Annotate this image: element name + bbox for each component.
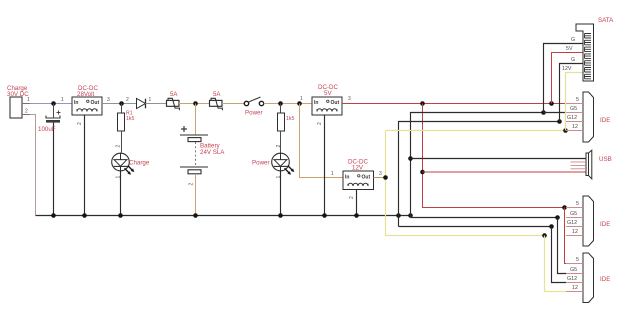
capacitor C1 100uF xyxy=(38,104,61,216)
svg-text:G12: G12 xyxy=(567,276,577,282)
ide connector J4 xyxy=(566,196,610,246)
svg-text:12: 12 xyxy=(572,285,578,291)
svg-text:IDE: IDE xyxy=(600,117,610,124)
wire U1 out to diode xyxy=(102,103,137,105)
usb connector J3 xyxy=(571,150,612,179)
wire gnd ide2 G12 feed xyxy=(399,226,552,228)
wire charger plus net xyxy=(30,103,72,105)
wire 5V rail horizontal xyxy=(342,103,566,105)
svg-text:1: 1 xyxy=(276,176,282,179)
wire 12V rail xyxy=(386,131,545,236)
wire U2 pin2 to ground xyxy=(324,115,326,216)
node junction gnd LED charge xyxy=(118,213,123,218)
wire 5V vertical drop xyxy=(423,104,565,208)
svg-text:5: 5 xyxy=(576,201,579,207)
svg-text:3: 3 xyxy=(348,96,351,102)
wire gnd ide3 G5 drop xyxy=(558,218,567,274)
svg-text:2: 2 xyxy=(77,122,83,125)
svg-text:1: 1 xyxy=(149,97,152,103)
wire LED charge cathode to ground xyxy=(120,171,122,216)
svg-text:Out: Out xyxy=(91,100,100,106)
wire 12V converter feed xyxy=(300,104,344,178)
node junction 5V usb tap xyxy=(420,170,425,175)
svg-text:1k5: 1k5 xyxy=(286,116,294,122)
ide connector J2 xyxy=(566,92,610,142)
node junction gnd ide2 G5 xyxy=(555,215,560,220)
dc-dc converter U3 12V xyxy=(331,159,382,200)
node junction gnd U1 xyxy=(82,213,87,218)
svg-text:12: 12 xyxy=(572,229,578,235)
svg-text:IDE: IDE xyxy=(600,276,610,283)
svg-text:In: In xyxy=(314,100,318,106)
wire gnd riser A vertical xyxy=(399,122,560,227)
wire U3 pin2 to ground xyxy=(356,190,358,216)
wire 5V sata riser xyxy=(552,53,584,104)
svg-text:12: 12 xyxy=(572,124,578,130)
wire U3 output stub xyxy=(374,177,386,179)
svg-text:1: 1 xyxy=(61,97,64,103)
svg-text:5A: 5A xyxy=(170,92,177,98)
svg-text:30V DC: 30V DC xyxy=(7,91,29,98)
svg-text:G5: G5 xyxy=(570,211,577,217)
wire gnd ide2 G5 feed xyxy=(411,217,558,219)
wire ground bus xyxy=(36,215,411,217)
svg-text:G12: G12 xyxy=(567,220,577,226)
wire gnd ide3 G12 drop xyxy=(552,227,567,283)
wire U1 pin2 to ground xyxy=(84,115,86,216)
wire gnd sata riser 2 xyxy=(560,64,584,122)
wire 12V sata riser xyxy=(566,73,584,131)
svg-text:Out: Out xyxy=(362,175,371,181)
node junction gnd riser B xyxy=(408,213,413,218)
node junction 5V ide2 xyxy=(562,205,567,210)
node junction gnd riser A xyxy=(396,213,401,218)
node junction 12V ide2 xyxy=(542,233,547,238)
resistor R2 1k5 xyxy=(278,104,295,153)
svg-text:3: 3 xyxy=(107,97,110,103)
wire gnd ide1 G5 stub xyxy=(544,112,567,114)
svg-text:Charge: Charge xyxy=(129,160,150,167)
node junction gnd usb tap xyxy=(408,156,413,161)
node junction gnd U2 xyxy=(322,213,327,218)
node junction 12V source xyxy=(383,175,388,180)
svg-text:SATA: SATA xyxy=(598,17,614,24)
svg-text:5A: 5A xyxy=(213,92,220,98)
svg-text:G5: G5 xyxy=(570,267,577,273)
svg-text:In: In xyxy=(74,100,78,106)
connector X1 Charge 30VDC xyxy=(7,85,30,118)
wire charger minus net xyxy=(30,115,36,216)
svg-text:2: 2 xyxy=(189,183,195,186)
wire LED power cathode to ground xyxy=(280,171,282,216)
svg-text:2: 2 xyxy=(349,196,355,199)
svg-text:5: 5 xyxy=(576,97,579,103)
svg-text:28Volt: 28Volt xyxy=(77,91,94,98)
svg-text:Power: Power xyxy=(252,160,270,167)
svg-text:Out: Out xyxy=(331,100,340,106)
node junction gnd battery xyxy=(193,213,198,218)
node junction cap top xyxy=(51,101,56,106)
node junction 12V feed tap xyxy=(297,101,302,106)
node junction gnd LED power xyxy=(278,213,283,218)
node junction gnd sata riser 2 xyxy=(557,119,562,124)
wire 5V ide3 drop xyxy=(565,208,567,264)
ide connector J5 xyxy=(566,253,610,303)
svg-text:5: 5 xyxy=(576,257,579,263)
node junction 5V sata riser xyxy=(549,101,554,106)
svg-text:1: 1 xyxy=(300,96,303,102)
svg-text:5V: 5V xyxy=(324,90,332,97)
node junction gnd cap xyxy=(51,213,56,218)
LED D2 Charge xyxy=(112,145,150,179)
wire F2 to switch xyxy=(222,103,244,105)
svg-text:G12: G12 xyxy=(567,115,577,121)
svg-text:In: In xyxy=(345,175,349,181)
dc-dc converter U1 28V xyxy=(61,85,110,125)
sata connector J1 xyxy=(562,17,614,81)
svg-text:2: 2 xyxy=(317,122,323,125)
wire 5V usb xyxy=(423,171,587,173)
node junction gnd ide2 G12 xyxy=(549,224,554,229)
svg-text:1: 1 xyxy=(27,97,30,103)
fuse F2 5A xyxy=(210,92,223,110)
wire diode cathode to fuse F1 xyxy=(146,103,167,105)
LED D3 Power xyxy=(252,145,294,179)
wire F1 to battery node xyxy=(179,103,210,105)
svg-text:24V SLA: 24V SLA xyxy=(200,149,225,156)
wire gnd riser B vertical xyxy=(411,113,544,218)
wire 12V top horizontal xyxy=(386,130,566,132)
svg-text:100uF: 100uF xyxy=(38,126,56,133)
node junction diode anode R1 xyxy=(119,101,124,106)
svg-text:2: 2 xyxy=(25,109,28,115)
svg-text:12V: 12V xyxy=(352,165,364,172)
dc-dc converter U2 5V xyxy=(300,84,351,125)
svg-text:3: 3 xyxy=(379,171,382,177)
battery B1 24V SLA xyxy=(180,104,225,186)
svg-text:USB: USB xyxy=(599,156,612,163)
node junction 12V sata riser xyxy=(563,128,568,133)
svg-text:IDE: IDE xyxy=(600,221,610,228)
svg-text:G: G xyxy=(571,37,575,43)
diode D1 xyxy=(126,97,152,109)
wire gnd usb xyxy=(411,158,587,160)
svg-text:2: 2 xyxy=(116,145,122,148)
fuse F1 5A xyxy=(167,92,180,110)
node junction 5V drop xyxy=(420,101,425,106)
wire battery minus to ground xyxy=(195,174,197,216)
svg-text:G: G xyxy=(571,57,575,63)
svg-text:Power: Power xyxy=(245,110,263,117)
node junction R2 tap xyxy=(278,101,283,106)
svg-text:2: 2 xyxy=(276,145,282,148)
svg-text:1k5: 1k5 xyxy=(126,116,134,122)
node junction gnd U3 xyxy=(354,213,359,218)
svg-text:5V: 5V xyxy=(566,46,573,52)
resistor R1 1k5 xyxy=(118,104,135,153)
svg-text:2: 2 xyxy=(126,97,129,103)
wire gnd sata riser 1 xyxy=(544,44,584,113)
node junction gnd sata riser 1 xyxy=(541,110,546,115)
svg-text:1: 1 xyxy=(331,171,334,177)
node junction battery tap xyxy=(193,101,198,106)
wire switch to U2 input xyxy=(264,103,312,105)
svg-text:12V: 12V xyxy=(562,66,572,72)
svg-text:G5: G5 xyxy=(570,106,577,112)
switch S1 Power xyxy=(244,97,263,117)
wire 12V ide3 drop xyxy=(545,236,567,292)
